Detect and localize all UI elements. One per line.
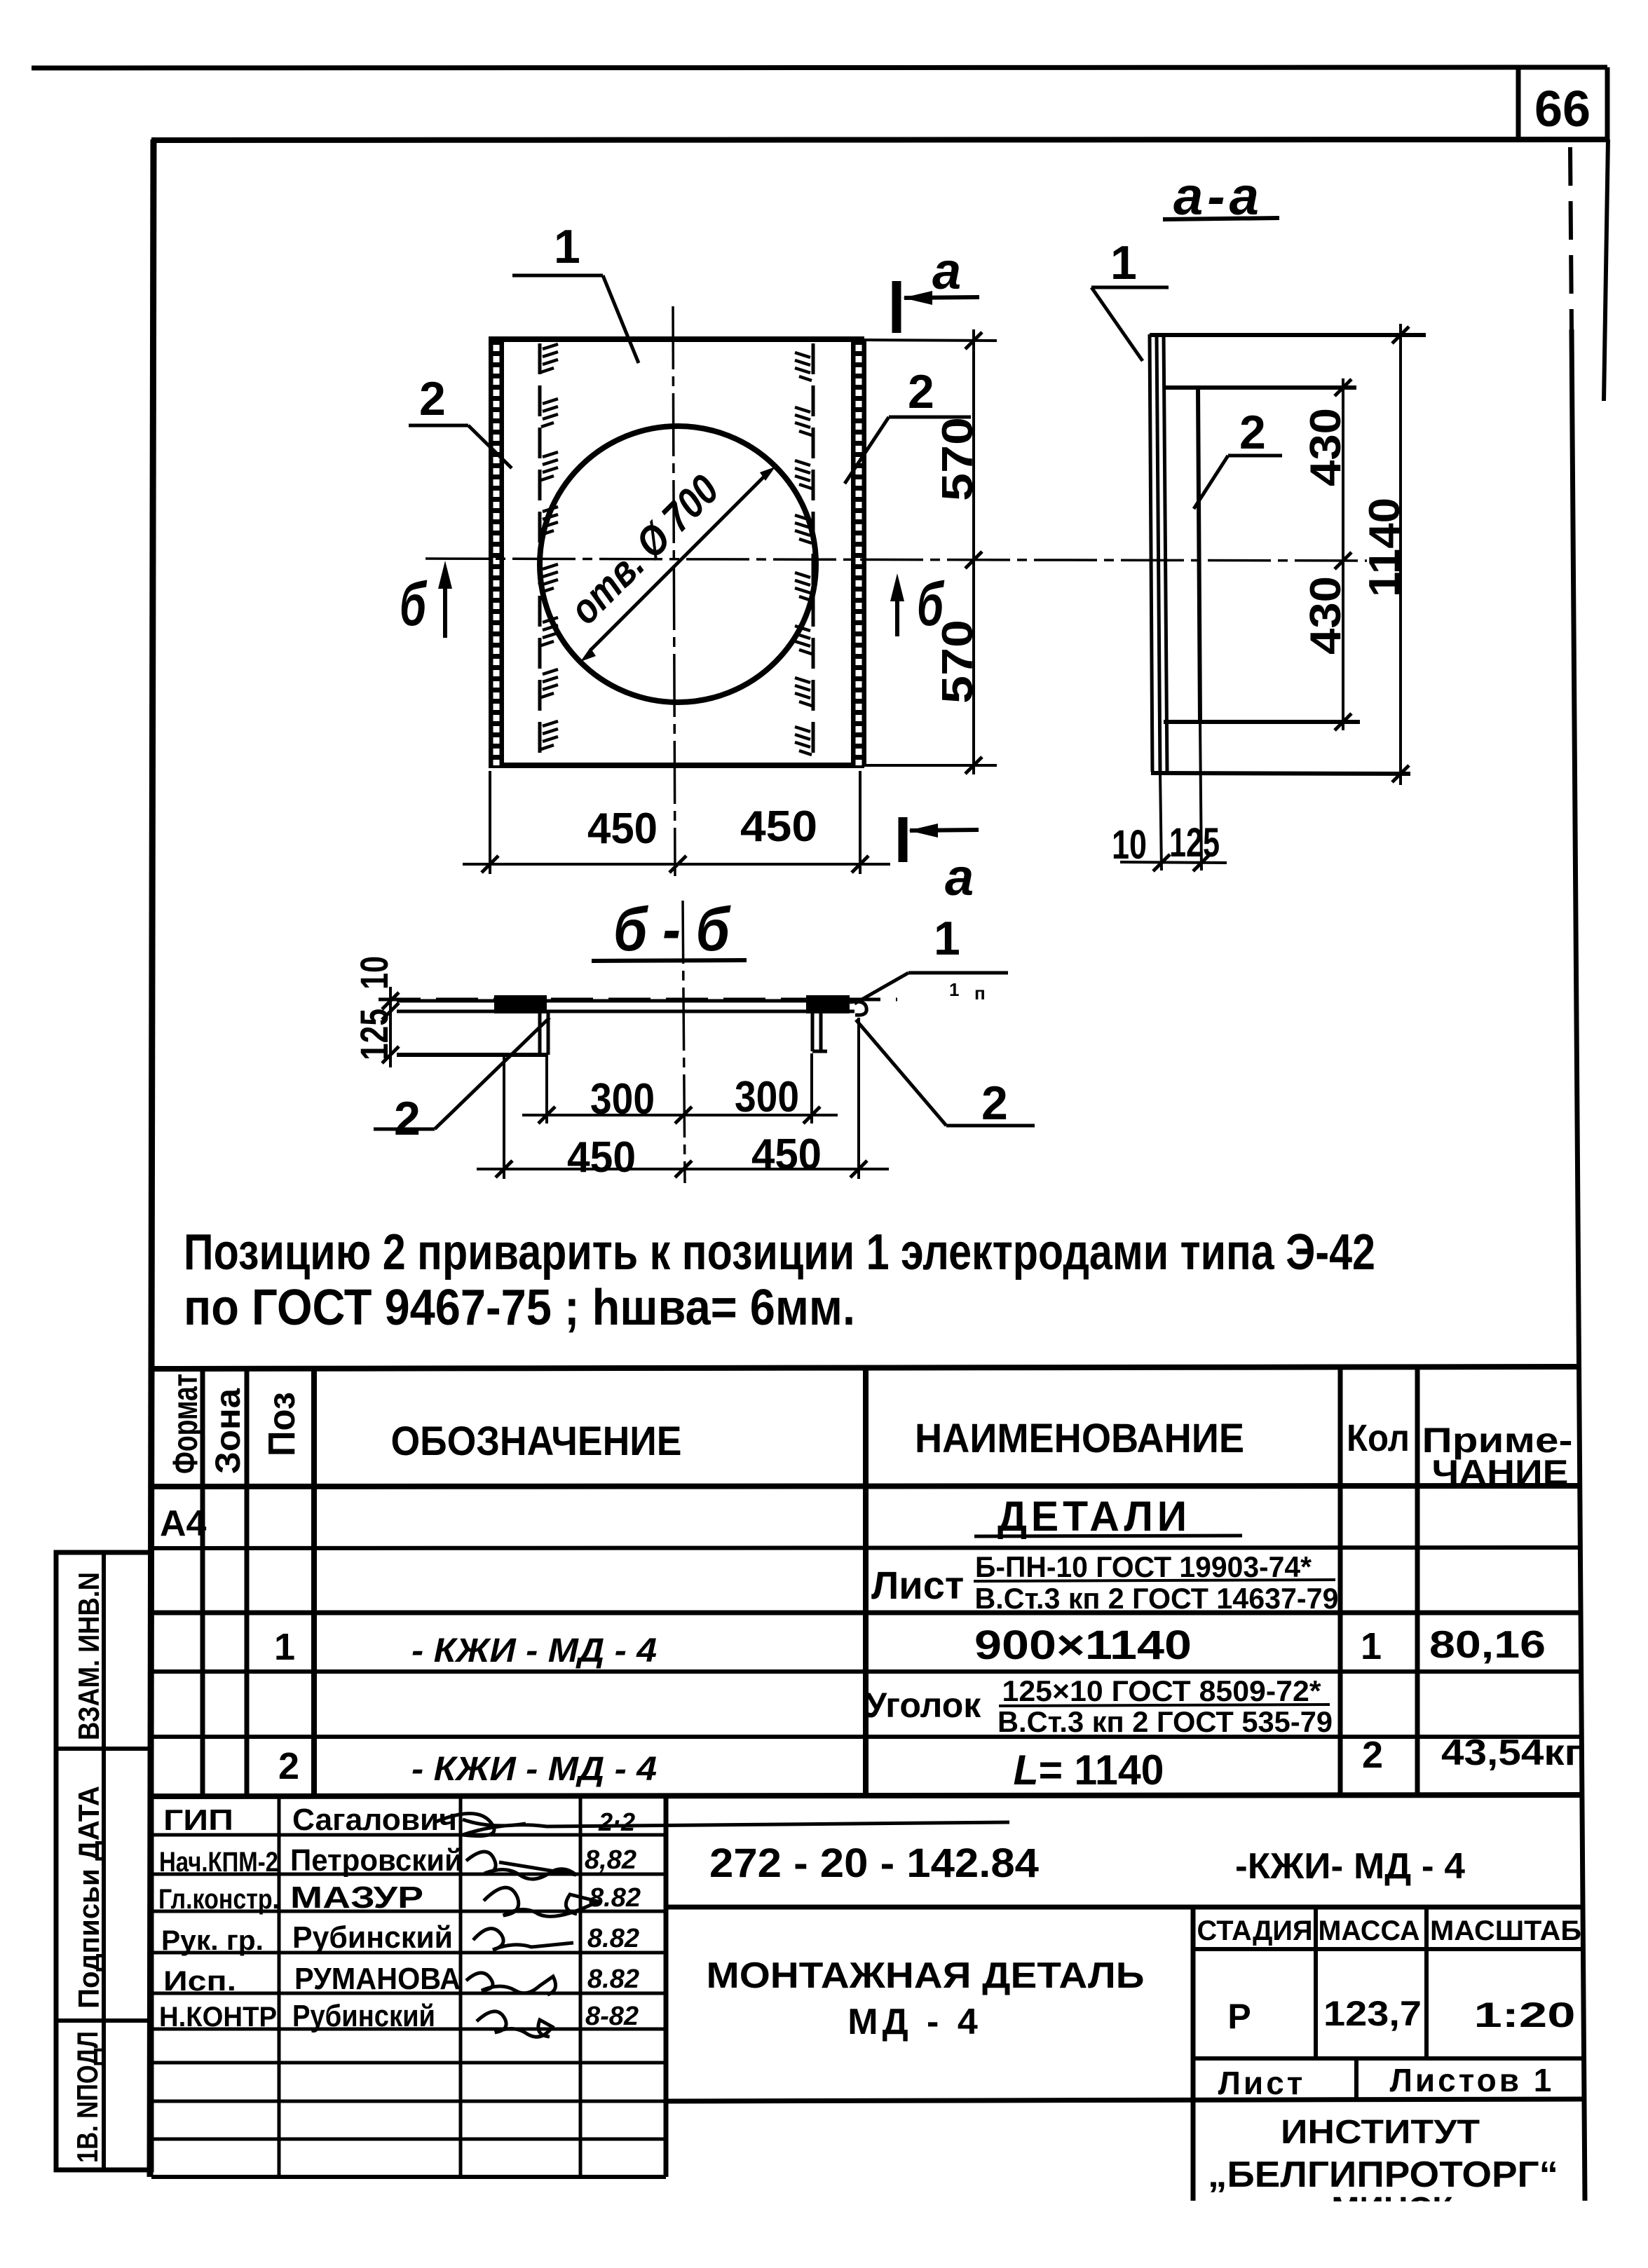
- svg-text:п: п: [974, 983, 986, 1004]
- svg-text:300: 300: [735, 1073, 799, 1121]
- svg-text:2: 2: [981, 1077, 1008, 1130]
- svg-text:ДЕТАЛИ: ДЕТАЛИ: [997, 1493, 1191, 1540]
- svg-text:8.82: 8.82: [589, 1883, 641, 1913]
- svg-text:МОНТАЖНАЯ ДЕТАЛЬ: МОНТАЖНАЯ ДЕТАЛЬ: [707, 1955, 1145, 1996]
- svg-text:2: 2: [1239, 406, 1266, 459]
- svg-text:430: 430: [1302, 408, 1350, 486]
- svg-text:МАЗУР: МАЗУР: [290, 1880, 423, 1915]
- svg-text:Рубинский: Рубинский: [292, 1999, 435, 2033]
- svg-text:66: 66: [1534, 81, 1591, 137]
- svg-text:НАИМЕНОВАНИЕ: НАИМЕНОВАНИЕ: [915, 1416, 1244, 1461]
- svg-text:РУМАНОВА: РУМАНОВА: [294, 1962, 461, 1996]
- svg-text:1: 1: [949, 979, 959, 1000]
- svg-text:Гл.констр.: Гл.констр.: [158, 1884, 279, 1915]
- svg-text:8,82: 8,82: [585, 1845, 636, 1875]
- svg-text:10: 10: [352, 956, 396, 990]
- svg-text:-КЖИ- МД - 4: -КЖИ- МД - 4: [1235, 1846, 1465, 1887]
- svg-text:- КЖИ - МД - 4: - КЖИ - МД - 4: [411, 1632, 657, 1669]
- svg-text:1: 1: [274, 1626, 295, 1668]
- svg-text:ГИП: ГИП: [163, 1803, 233, 1836]
- svg-text:В.Ст.3 кп 2 ГОСТ 535-79: В.Ст.3 кп 2 ГОСТ 535-79: [997, 1705, 1333, 1738]
- svg-text:Лист: Лист: [871, 1563, 964, 1607]
- svg-text:Н.КОНТР: Н.КОНТР: [159, 2002, 277, 2033]
- svg-text:Кол: Кол: [1347, 1417, 1410, 1459]
- svg-text:ОБОЗНАЧЕНИЕ: ОБОЗНАЧЕНИЕ: [391, 1419, 682, 1464]
- svg-text:Подписьи ДАТА: Подписьи ДАТА: [72, 1786, 105, 2009]
- svg-text:2·2: 2·2: [598, 1808, 635, 1836]
- svg-text:L= 1140: L= 1140: [1014, 1747, 1164, 1794]
- svg-text:МАСШТАБ: МАСШТАБ: [1430, 1915, 1581, 1946]
- svg-text:1: 1: [1361, 1625, 1382, 1667]
- svg-text:450: 450: [740, 802, 817, 851]
- svg-text:8.82: 8.82: [587, 1924, 639, 1953]
- svg-text:2: 2: [394, 1092, 421, 1145]
- svg-text:„БЕЛГИПРОТОРГ“: „БЕЛГИПРОТОРГ“: [1208, 2154, 1558, 2195]
- svg-text:ЧАНИЕ: ЧАНИЕ: [1432, 1453, 1569, 1492]
- svg-text:430: 430: [1302, 576, 1350, 655]
- svg-text:б - б: б - б: [613, 894, 731, 964]
- svg-text:Зона: Зона: [208, 1388, 247, 1474]
- svg-text:2: 2: [908, 365, 934, 418]
- svg-text:1140: 1140: [1361, 498, 1409, 597]
- svg-text:- КЖИ - МД - 4: - КЖИ - МД - 4: [411, 1751, 657, 1788]
- svg-text:A4: A4: [160, 1503, 207, 1544]
- svg-text:б: б: [400, 569, 428, 638]
- svg-text:Исп.: Исп.: [163, 1966, 236, 1997]
- svg-text:125: 125: [1169, 820, 1220, 866]
- svg-text:б: б: [917, 569, 945, 638]
- svg-text:1:20: 1:20: [1474, 1995, 1576, 2035]
- svg-text:a: a: [932, 242, 961, 300]
- svg-text:272 - 20 - 142.84: 272 - 20 - 142.84: [709, 1840, 1039, 1886]
- svg-text:450: 450: [567, 1133, 636, 1182]
- svg-text:В.Ст.3 кп 2 ГОСТ 14637-79: В.Ст.3 кп 2 ГОСТ 14637-79: [975, 1582, 1339, 1615]
- svg-text:Формат: Формат: [165, 1374, 205, 1474]
- svg-text:Поз: Поз: [261, 1392, 303, 1456]
- svg-text:МД - 4: МД - 4: [847, 2002, 982, 2042]
- svg-text:ИНСТИТУТ: ИНСТИТУТ: [1281, 2114, 1480, 2151]
- svg-text:123,7: 123,7: [1323, 1994, 1422, 2033]
- svg-text:1: 1: [934, 912, 960, 965]
- svg-text:СТАДИЯ: СТАДИЯ: [1197, 1915, 1313, 1946]
- svg-text:900×1140: 900×1140: [974, 1623, 1192, 1668]
- svg-text:ВЗАМ. ИНВ.N: ВЗАМ. ИНВ.N: [72, 1572, 105, 1740]
- svg-text:8.82: 8.82: [587, 1965, 639, 1994]
- svg-text:Рубинский: Рубинский: [292, 1920, 453, 1955]
- svg-text:Уголок: Уголок: [865, 1686, 981, 1725]
- svg-text:8-82: 8-82: [585, 2002, 639, 2031]
- svg-text:Сагалович: Сагалович: [292, 1803, 457, 1837]
- svg-text:по ГОСТ 9467-75 ; hшва= 6мм.: по ГОСТ 9467-75 ; hшва= 6мм.: [184, 1280, 855, 1336]
- svg-text:Рук. гр.: Рук. гр.: [161, 1925, 264, 1956]
- svg-text:a: a: [945, 848, 974, 906]
- svg-text:43,54кг: 43,54кг: [1441, 1733, 1581, 1773]
- svg-text:80,16: 80,16: [1429, 1623, 1546, 1666]
- svg-text:2: 2: [278, 1745, 299, 1787]
- svg-text:125: 125: [352, 1009, 396, 1060]
- svg-text:Позицию 2 приварить к позиции: Позицию 2 приварить к позиции 1 электрод…: [184, 1224, 1375, 1280]
- svg-text:10: 10: [1112, 822, 1147, 868]
- svg-text:1: 1: [1110, 236, 1137, 289]
- svg-text:Б-ПН-10 ГОСТ 19903-74*: Б-ПН-10 ГОСТ 19903-74*: [975, 1550, 1312, 1583]
- svg-text:300: 300: [590, 1075, 655, 1123]
- svg-text:1В. NПОДЛ: 1В. NПОДЛ: [71, 2031, 104, 2163]
- svg-text:МАССА: МАССА: [1319, 1915, 1420, 1946]
- svg-text:125×10 ГОСТ 8509-72*: 125×10 ГОСТ 8509-72*: [1002, 1674, 1322, 1707]
- svg-text:Лист: Лист: [1218, 2065, 1306, 2101]
- svg-text:2: 2: [1362, 1734, 1383, 1776]
- svg-text:P: P: [1227, 1997, 1251, 2036]
- svg-text:Нач.КПМ-2: Нач.КПМ-2: [159, 1847, 278, 1878]
- svg-text:2: 2: [419, 372, 446, 425]
- svg-text:Листов 1: Листов 1: [1390, 2062, 1555, 2098]
- svg-text:1: 1: [554, 220, 580, 273]
- svg-text:Петровский: Петровский: [290, 1843, 463, 1878]
- svg-text:450: 450: [587, 805, 658, 853]
- svg-text:450: 450: [751, 1130, 822, 1179]
- svg-text:570: 570: [934, 417, 982, 501]
